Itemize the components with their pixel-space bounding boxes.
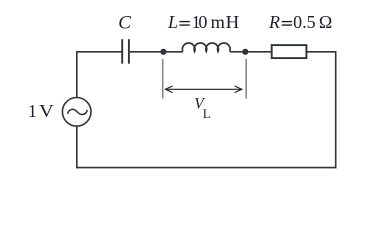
capacitor C xyxy=(122,39,129,64)
measurement stub left (node A) xyxy=(162,59,164,99)
svg-text:L: L xyxy=(167,12,178,32)
wire resistor to top-right corner xyxy=(306,51,335,53)
wire bottom xyxy=(76,167,337,169)
svg-text:Ω: Ω xyxy=(319,12,332,32)
svg-text:V: V xyxy=(39,101,54,121)
svg-text:R: R xyxy=(268,12,280,32)
wire capacitor to node A xyxy=(130,51,164,53)
wire node A to inductor xyxy=(163,51,182,53)
wire node B to resistor xyxy=(245,51,271,53)
resistor R body xyxy=(272,45,307,58)
wire left upper xyxy=(76,51,78,98)
svg-text:1: 1 xyxy=(28,101,37,121)
wire top-left corner to capacitor xyxy=(77,51,122,53)
V_L double-headed arrow xyxy=(165,86,241,93)
svg-text:0: 0 xyxy=(198,12,207,32)
svg-text:C: C xyxy=(118,13,131,34)
wire left lower xyxy=(76,126,78,168)
measurement stub right (node B) xyxy=(245,59,247,99)
label R equals sign xyxy=(282,21,292,26)
svg-text:L: L xyxy=(203,106,211,121)
wire inductor to node B xyxy=(230,51,246,53)
wire right side xyxy=(335,51,337,168)
svg-text:H: H xyxy=(226,12,240,32)
node B junction dot xyxy=(242,49,248,55)
voltage source sine symbol xyxy=(68,109,88,114)
label L equals sign xyxy=(179,21,189,26)
node A junction dot xyxy=(160,49,166,55)
svg-text:m: m xyxy=(211,12,225,32)
voltage source circle xyxy=(62,98,91,127)
svg-text:0.5: 0.5 xyxy=(293,12,316,32)
inductor L coil xyxy=(182,43,230,52)
